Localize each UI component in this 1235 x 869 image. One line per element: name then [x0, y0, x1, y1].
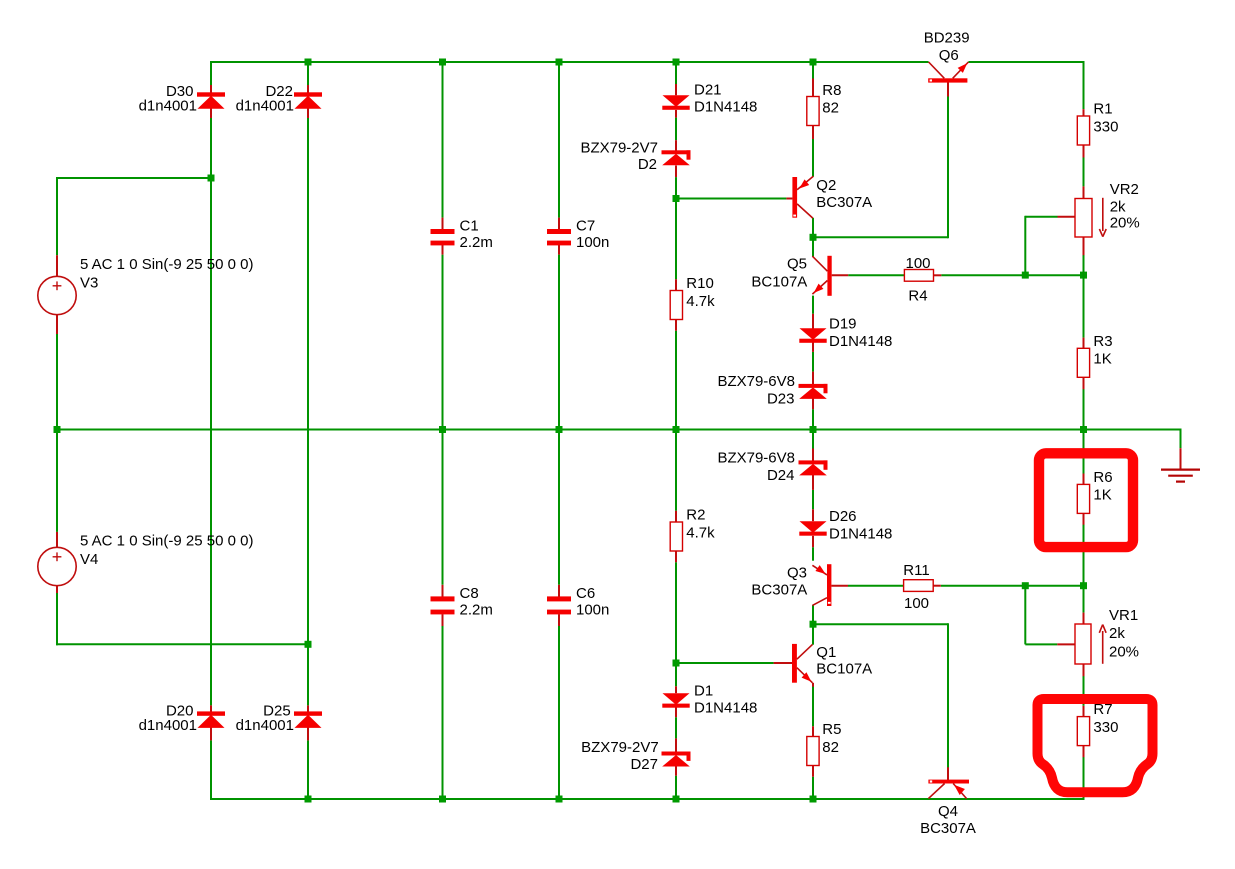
svg-text:D1N4148: D1N4148: [829, 333, 892, 350]
pin R5 top: [812, 726, 814, 736]
label Q6 model: [924, 30, 970, 47]
svg-text:2.2m: 2.2m: [460, 234, 493, 251]
pin Q5 base lead: [832, 274, 849, 276]
resistor R4: [904, 270, 933, 282]
pin VR2 top: [1083, 186, 1085, 198]
svg-text:d1n4001: d1n4001: [236, 98, 294, 115]
transistor Q1 emitter diagonal: [797, 668, 813, 683]
voltage source V3 plus sign: [53, 281, 62, 290]
wire segment D1-D27: [675, 717, 677, 738]
pin D30 cathode: [210, 108, 212, 118]
svg-text:82: 82: [822, 739, 839, 756]
wire column D30 bottom: [210, 740, 212, 800]
pin D24 bottom: [812, 475, 814, 490]
transistor Q4 bar: [928, 780, 969, 784]
wire segment Q2-node: [812, 218, 814, 238]
resistor R2: [670, 522, 682, 551]
pin ground lead: [1180, 448, 1182, 469]
wire column C8 bottom: [442, 626, 444, 800]
pin R7 bottom: [1083, 746, 1085, 758]
wire V4 lower: [56, 593, 58, 645]
pin Q1 emitter lead: [812, 683, 814, 687]
svg-text:VR2: VR2: [1110, 181, 1139, 198]
wire column C6 bottom: [558, 626, 560, 800]
pin R10 top: [675, 279, 677, 290]
label D27 model: [581, 739, 659, 756]
wire segment R10-mid: [675, 331, 677, 431]
pin Q1 base lead: [774, 662, 792, 664]
pin C7 bottom: [558, 245, 560, 255]
transistor Q2 collector diagonal: [797, 204, 813, 218]
pin Q4 base lead: [947, 767, 949, 780]
wire column D22 middle: [307, 118, 309, 705]
transistor Q3 emitter diagonal: [812, 565, 827, 575]
resistor R6: [1077, 484, 1089, 513]
pin V3 plus: [56, 255, 58, 277]
wire segment D26-Q3: [812, 547, 814, 561]
svg-text:BC307A: BC307A: [920, 820, 976, 837]
resistor R10: [670, 291, 682, 320]
svg-text:Q5: Q5: [787, 255, 807, 272]
label V3 value: [80, 256, 253, 273]
transistor Q2 emitter diagonal: [797, 176, 813, 190]
wire V4 upper: [56, 429, 58, 532]
wire segment Q5-D19: [812, 296, 814, 314]
svg-text:BZX79-6V8: BZX79-6V8: [717, 373, 795, 390]
svg-text:R2: R2: [686, 507, 705, 524]
transistor Q6 bar: [928, 78, 967, 82]
wire segment D23-mid: [812, 409, 814, 430]
svg-text:BC307A: BC307A: [816, 194, 872, 211]
node junction Q2 collector: [810, 234, 817, 241]
label V4 name: [80, 551, 98, 568]
pin D1 bottom: [675, 707, 677, 717]
diode D25: [294, 711, 322, 728]
node junction wiper VR1: [1022, 582, 1029, 589]
label Q4 model: [920, 820, 976, 837]
label V3 name: [80, 274, 98, 291]
resistor R8: [807, 97, 819, 126]
label R11 value: [904, 595, 929, 612]
label VR2 name: [1110, 181, 1139, 198]
pin Q6 collector lead: [947, 82, 949, 96]
pin C1 bottom: [442, 245, 444, 255]
label C1 value: [460, 234, 493, 251]
svg-text:Q4: Q4: [938, 803, 958, 820]
pin C8 bottom: [442, 614, 444, 626]
label D30 model: [139, 98, 197, 115]
svg-text:100n: 100n: [576, 234, 609, 251]
wire segment R8-Q2: [812, 139, 814, 177]
wire segment D19-D23: [812, 352, 814, 372]
wire right spine top drop: [1083, 61, 1085, 109]
transistor Q2 emitter arrow: [799, 179, 809, 188]
label D2 name: [638, 156, 657, 173]
wire VR2 wiper horizontal: [1025, 216, 1057, 218]
node junction V4-D25 column: [305, 641, 312, 648]
svg-text:Q1: Q1: [816, 644, 836, 661]
label VR1 value: [1109, 625, 1125, 642]
wire column R8 top: [812, 61, 814, 79]
resistor R5: [807, 737, 819, 766]
node junction wiper VR2: [1022, 272, 1029, 279]
node junction Q3 collector: [810, 621, 817, 628]
capacitor C6: [547, 596, 571, 614]
transistor Q6 emitter arrow: [958, 63, 968, 73]
label D25 name: [263, 703, 291, 720]
wire right spine R7-bottom: [1083, 757, 1085, 800]
capacitor C1: [431, 229, 455, 245]
svg-text:V4: V4: [80, 551, 98, 568]
label Q5 model: [751, 274, 807, 291]
node junction top C7: [556, 59, 563, 66]
wire segment mid-D24: [812, 429, 814, 449]
potentiometer VR1 arrow: [1099, 625, 1106, 664]
pin R8 bottom: [812, 126, 814, 140]
label D24 model: [717, 450, 795, 467]
pin VR2 wiper lead: [1058, 216, 1076, 218]
pin D25 bottom: [307, 728, 309, 741]
wire right spine node-R3: [1083, 274, 1085, 338]
label D23 name: [767, 391, 795, 408]
node junction mid C7: [556, 426, 563, 433]
transistor Q5 bar: [827, 256, 831, 296]
pin R2 top: [675, 511, 677, 522]
transistor Q5 emitter diagonal: [812, 281, 827, 295]
wire column D30 middle: [210, 118, 212, 705]
transistor Q3 bar: [827, 564, 831, 606]
label VR2 percent: [1110, 215, 1140, 232]
pin D30 anode: [210, 85, 212, 94]
transistor Q6 collector diagonal: [929, 62, 945, 78]
pin V4 minus: [56, 585, 58, 593]
svg-text:100: 100: [905, 255, 930, 272]
wire column C1-C8 middle: [442, 255, 444, 585]
node junction mid R10-R2: [673, 426, 680, 433]
pin D19 top: [812, 314, 814, 329]
label R6 value: [1093, 487, 1111, 504]
svg-text:d1n4001: d1n4001: [139, 717, 197, 734]
wire right spine node-VR1: [1083, 585, 1085, 613]
label R10 name: [686, 275, 714, 292]
capacitor C7: [547, 229, 571, 245]
svg-text:R10: R10: [686, 275, 714, 292]
transistor Q1 bar: [792, 644, 797, 683]
label C6 value: [576, 602, 609, 619]
wire right spine R3-mid: [1083, 389, 1085, 431]
svg-text:1K: 1K: [1093, 351, 1111, 368]
wire column C7-C6 middle: [558, 255, 560, 585]
wire column D22 top: [307, 61, 309, 85]
label D24 name: [767, 467, 795, 484]
wire Q1 base: [676, 662, 774, 664]
zener diode D2: [662, 150, 691, 165]
wire node to Q6 feed: [812, 236, 948, 238]
label D19 name: [829, 316, 857, 333]
wire segment node-Q5: [812, 237, 814, 257]
pin V4 plus: [56, 532, 58, 548]
label C8 value: [460, 602, 493, 619]
wire segment Q3-node-Q1: [812, 605, 814, 645]
ground: [1161, 470, 1200, 482]
svg-text:R11: R11: [903, 562, 929, 579]
pin C6 bottom: [558, 614, 560, 626]
wire column D21 top: [675, 61, 677, 84]
wire right spine mid-R6: [1083, 429, 1085, 474]
wire segment D24-D26: [812, 490, 814, 509]
node junction V3-D30 column: [208, 175, 215, 182]
label R3 name: [1093, 333, 1112, 350]
transistor Q4 collector diagonal: [928, 784, 944, 799]
wire Q6 feed vertical: [947, 96, 949, 239]
pin D22 cathode: [307, 108, 309, 118]
resistor R7: [1077, 717, 1089, 746]
wire right spine VR1-R7: [1083, 676, 1085, 706]
node junction bottom R5: [810, 796, 817, 803]
svg-text:D1N4148: D1N4148: [694, 99, 757, 116]
svg-text:R3: R3: [1093, 333, 1112, 350]
node junction mid D23-D24: [810, 426, 817, 433]
svg-text:D1: D1: [694, 683, 713, 700]
wire segment R5-bottom: [812, 777, 814, 800]
transistor Q5 collector diagonal: [812, 256, 827, 271]
label R6 name: [1093, 469, 1112, 486]
wire R4 to VR2 node: [941, 274, 1084, 276]
label D19 model: [829, 333, 892, 350]
pin D2 bottom: [675, 166, 677, 178]
wire VR2 wiper vertical: [1024, 216, 1026, 276]
wire Q4 feed vertical: [947, 623, 949, 768]
label R8 value: [822, 100, 839, 117]
pin R4 left: [904, 274, 906, 276]
svg-text:R4: R4: [908, 288, 927, 305]
zener diode D23: [799, 384, 828, 399]
pin R3 top: [1083, 338, 1085, 349]
pin R10 bottom: [675, 320, 677, 331]
wire Q5 base: [848, 274, 905, 276]
label D20 model: [139, 717, 197, 734]
label C7 value: [576, 234, 609, 251]
node junction bottom C6: [556, 796, 563, 803]
diode D19: [799, 328, 826, 343]
label D22 model: [236, 98, 294, 115]
wire node to Q4 feed: [812, 623, 948, 625]
node junction top D21: [673, 59, 680, 66]
pin R3 bottom: [1083, 377, 1085, 389]
transistor Q4 emitter diagonal: [953, 784, 966, 799]
wire bottom rail: [211, 798, 1084, 800]
pin D22 anode: [307, 85, 309, 94]
label C8 name: [460, 585, 479, 602]
svg-text:Q6: Q6: [939, 47, 959, 64]
node junction bottom D27: [673, 796, 680, 803]
wire V3 lower: [56, 334, 58, 431]
wire VR1 wiper vertical: [1024, 585, 1026, 645]
pin D27 bottom: [675, 765, 677, 775]
pin D21 top: [675, 84, 677, 95]
wire right spine R6-node: [1083, 524, 1085, 587]
pin D27 top: [675, 738, 677, 751]
label R10 value: [686, 293, 715, 310]
diode D20: [197, 711, 225, 728]
wire V3 upper: [56, 177, 58, 255]
svg-text:5 AC 1 0 Sin(-9 25 50 0 0): 5 AC 1 0 Sin(-9 25 50 0 0): [80, 533, 253, 550]
wire VR1 wiper horizontal: [1025, 643, 1057, 645]
node junction mid V-sources: [54, 426, 61, 433]
transistor Q2 bar: [792, 177, 797, 218]
svg-text:5 AC 1 0 Sin(-9 25 50 0 0): 5 AC 1 0 Sin(-9 25 50 0 0): [80, 256, 253, 273]
diode D22: [294, 92, 322, 109]
label Q1 model: [816, 661, 872, 678]
node junction bottom D25: [305, 796, 312, 803]
svg-text:4.7k: 4.7k: [686, 293, 715, 310]
label R2 name: [686, 507, 705, 524]
label R7 name: [1093, 701, 1112, 718]
pin C6 top: [558, 585, 560, 597]
pin D20 bottom: [210, 728, 212, 741]
diode D30: [197, 92, 225, 109]
wire Q2 base: [676, 198, 786, 200]
label D1 model: [694, 700, 757, 717]
label C6 name: [576, 585, 595, 602]
pin D19 bottom: [812, 342, 814, 352]
pin V3 minus: [56, 314, 58, 334]
svg-text:D21: D21: [694, 82, 722, 99]
pin VR2 bottom: [1083, 237, 1085, 256]
pin D20 top: [210, 705, 212, 712]
svg-text:20%: 20%: [1110, 215, 1140, 232]
svg-text:Q2: Q2: [816, 177, 836, 194]
svg-text:BZX79-6V8: BZX79-6V8: [717, 450, 795, 467]
svg-text:d1n4001: d1n4001: [139, 98, 197, 115]
wire right spine VR2-node: [1083, 255, 1085, 276]
resistor R1: [1077, 116, 1089, 145]
svg-text:2.2m: 2.2m: [460, 602, 493, 619]
label D22 name: [265, 83, 293, 100]
svg-text:Q3: Q3: [787, 564, 807, 581]
node junction D2-Q2 base: [673, 195, 680, 202]
label C7 name: [576, 218, 595, 235]
diode D26: [799, 521, 826, 535]
svg-text:C6: C6: [576, 585, 595, 602]
transistor Q4 emitter arrow: [954, 785, 965, 795]
label D26 name: [829, 508, 857, 525]
label R11 name: [903, 562, 929, 579]
pin C8 top: [442, 585, 444, 597]
potentiometer VR2 arrow: [1099, 198, 1106, 237]
node junction top C1: [439, 59, 446, 66]
wire Q3 base: [848, 585, 904, 587]
svg-text:2k: 2k: [1109, 625, 1125, 642]
wire column D30 top: [210, 61, 212, 85]
label R4 value: [905, 255, 930, 272]
label Q3 model: [751, 582, 807, 599]
svg-text:330: 330: [1093, 719, 1118, 736]
svg-text:R6: R6: [1093, 469, 1112, 486]
svg-text:R1: R1: [1093, 101, 1112, 118]
pin VR1 top: [1083, 613, 1085, 624]
node junction R2-Q1 base: [673, 660, 680, 667]
pin R4 right: [934, 274, 942, 276]
pin D26 bottom: [812, 536, 814, 547]
highlight box around R7: [1038, 699, 1153, 792]
wire segment Q1-R5: [812, 686, 814, 727]
potentiometer VR2 body: [1075, 199, 1092, 238]
svg-text:V3: V3: [80, 274, 98, 291]
label R7 value: [1093, 719, 1118, 736]
svg-text:D1N4148: D1N4148: [829, 526, 892, 543]
label R1 name: [1093, 101, 1112, 118]
label Q5 name: [787, 255, 807, 272]
svg-text:D1N4148: D1N4148: [694, 700, 757, 717]
voltage source V4 plus sign: [53, 552, 62, 561]
wire middle rail: [56, 429, 1181, 431]
wire top rail right segment: [968, 61, 1084, 63]
wire top rail left segment: [211, 61, 929, 63]
pin R6 top: [1083, 474, 1085, 485]
pin Q2 base lead: [786, 198, 792, 200]
label D21 model: [694, 99, 757, 116]
label D20 name: [166, 703, 194, 720]
resistor R11: [904, 580, 934, 592]
svg-text:d1n4001: d1n4001: [236, 717, 294, 734]
svg-text:VR1: VR1: [1109, 607, 1138, 624]
svg-text:BZX79-2V7: BZX79-2V7: [580, 140, 658, 157]
label C1 name: [460, 218, 479, 235]
capacitor C8: [431, 596, 455, 614]
pin R5 bottom: [812, 766, 814, 777]
node junction mid right spine: [1080, 426, 1087, 433]
pin R2 bottom: [675, 551, 677, 562]
label D26 model: [829, 526, 892, 543]
label D25 model: [236, 717, 294, 734]
transistor Q3 collector diagonal: [812, 598, 827, 606]
svg-text:2k: 2k: [1110, 199, 1126, 216]
wire V3 horizontal: [56, 177, 211, 179]
svg-text:BC107A: BC107A: [816, 661, 872, 678]
label Q4 name: [938, 803, 958, 820]
wire segment D2-R10: [675, 177, 677, 279]
diode D21: [662, 95, 689, 109]
svg-text:D23: D23: [767, 391, 795, 408]
pin R7 top: [1083, 706, 1085, 717]
transistor Q6 emitter diagonal: [953, 62, 969, 78]
transistor Q1 emitter arrow: [802, 672, 812, 681]
svg-text:82: 82: [822, 100, 839, 117]
label R8 name: [822, 82, 841, 99]
label Q2 name: [816, 177, 836, 194]
diode D1: [662, 693, 689, 707]
label Q1 name: [816, 644, 836, 661]
label R5 value: [822, 739, 839, 756]
svg-text:R8: R8: [822, 82, 841, 99]
svg-text:R5: R5: [822, 721, 841, 738]
wire column C7 top: [558, 61, 560, 218]
pin D21 bottom: [675, 110, 677, 118]
zener diode D27: [662, 752, 691, 767]
svg-text:20%: 20%: [1109, 644, 1139, 661]
pin D26 top: [812, 509, 814, 521]
pin D24 top: [812, 449, 814, 461]
wire R11 to VR1 node: [941, 585, 1085, 587]
wire segment D27-bottom: [675, 776, 677, 800]
potentiometer VR1 body: [1075, 624, 1091, 664]
node junction bottom C8: [439, 796, 446, 803]
wire right spine R1-VR2: [1083, 157, 1085, 186]
label D23 model: [717, 373, 795, 390]
voltage source V3 circle: [38, 276, 76, 314]
svg-text:C1: C1: [460, 218, 479, 235]
